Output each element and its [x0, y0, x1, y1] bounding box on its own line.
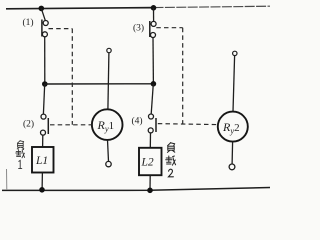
label load-2 (vertical 负载2): [166, 143, 176, 177]
wire: contact (2) to load L1: [42, 135, 44, 147]
switch contact (4) upper terminal: [149, 114, 154, 119]
wire: top supply rail right segment: [154, 6, 271, 7]
dashed link: contact (3) to vertical run: [156, 27, 182, 29]
dashed link: contact (4) and run to Ry2: [158, 124, 218, 125]
wire: L1 to bottom rail: [41, 173, 43, 190]
svg-text:(2): (2): [23, 119, 34, 130]
wire: top supply rail left segment: [6, 8, 154, 9]
dashed link: contact (1) to vertical run: [49, 28, 73, 30]
dashed link: vertical run left: [71, 29, 73, 125]
char 1: [19, 160, 22, 168]
relay coil Ry2 branch: top terminal: [233, 51, 237, 55]
svg-text:L1: L1: [35, 155, 48, 167]
switch contact (3) upper terminal: [151, 21, 156, 26]
switch contact (1) blade: [41, 20, 43, 37]
relay coil Ry1 bottom terminal: [106, 161, 111, 166]
switch contact (4) blade: [155, 118, 157, 132]
wire: contact (3) to mid junction right: [152, 38, 154, 84]
node: junction mid right: [151, 81, 157, 87]
wire: L2 to bottom rail: [149, 175, 151, 190]
switch contact (4) lower terminal: [148, 128, 153, 133]
svg-text:(4): (4): [132, 116, 143, 127]
switch contact (3) lower terminal: [151, 33, 156, 38]
dashed link: contact (2) and run to Ry1: [50, 124, 92, 126]
label load-1 (vertical 负载1): [16, 141, 25, 169]
node: junction top of branch 2: [151, 5, 157, 11]
char 负: [17, 141, 23, 144]
switch contact (1) upper terminal: [43, 21, 48, 26]
wire: top dot to contact (3): [153, 8, 155, 21]
svg-text:(1): (1): [23, 17, 34, 28]
char 载: [166, 156, 172, 164]
relay coil Ry2 bottom terminal: [229, 164, 235, 170]
wire: Ry2 bottom lead: [231, 142, 234, 164]
char 负: [168, 143, 175, 146]
wire: contact (4) to load L2: [149, 133, 151, 148]
node: junction top of branch 1: [39, 6, 45, 12]
load L1 box: [32, 147, 54, 173]
switch contact (1) lower terminal: [42, 32, 47, 37]
relay coil Ry1: [92, 109, 123, 140]
node: junction bottom of branch 1: [39, 187, 45, 193]
node: junction mid left: [42, 81, 48, 87]
wire: top dot to contact (1): [41, 8, 45, 20]
wire: mid junction down to contact (2): [43, 84, 44, 114]
switch contact (3) blade: [149, 21, 151, 37]
scan artifact left edge: [6, 169, 8, 190]
node: junction bottom of branch 2: [147, 188, 153, 194]
relay coil Ry1 branch: top terminal: [107, 48, 111, 52]
svg-text:(3): (3): [133, 23, 144, 34]
wire: middle rail: [45, 83, 154, 85]
relay coil Ry2: [218, 112, 248, 142]
wire: contact (1) to mid junction: [44, 37, 46, 84]
load L2 box: [139, 148, 162, 175]
wire: Ry2 top lead: [233, 56, 235, 112]
switch contact (2) lower terminal: [41, 130, 46, 135]
wire: Ry1 bottom lead: [108, 140, 109, 162]
switch contact (2) blade: [47, 118, 49, 134]
char 2: [168, 169, 173, 177]
switch contact (2) upper terminal: [41, 114, 46, 119]
char 载: [16, 150, 22, 157]
wire: mid junction down to contact (4): [151, 84, 153, 114]
svg-text:L2: L2: [141, 157, 154, 169]
dashed link: vertical run right: [182, 28, 184, 124]
wire: bottom supply rail: [2, 188, 270, 191]
wire: Ry1 top lead: [108, 53, 109, 110]
